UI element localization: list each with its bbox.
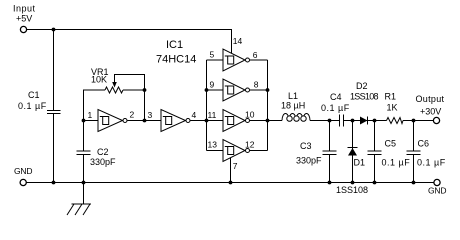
svg-text:C5: C5 — [385, 139, 397, 149]
svg-text:1: 1 — [88, 110, 93, 120]
pin number 9 — [210, 80, 215, 90]
svg-text:14: 14 — [233, 36, 243, 46]
svg-text:D1: D1 — [354, 158, 366, 168]
svg-text:18 µH: 18 µH — [281, 101, 305, 111]
node bus C2/earth — [82, 181, 86, 185]
svg-text:4: 4 — [192, 110, 197, 120]
svg-text:74HC14: 74HC14 — [156, 54, 196, 66]
svg-text:2: 2 — [130, 110, 135, 120]
capacitor C3 — [296, 121, 337, 183]
wire pin9 input — [207, 89, 224, 91]
wire pin10 output — [250, 120, 268, 122]
svg-text:C6: C6 — [418, 139, 430, 149]
inverter U1f pins 13-12 — [223, 140, 250, 162]
capacitor C2 — [77, 121, 117, 183]
pin number 6 — [253, 50, 258, 60]
pin number 12 — [245, 140, 255, 150]
svg-text:1K: 1K — [387, 103, 398, 113]
node R1 / C6 junction — [412, 119, 416, 123]
svg-text:1SS108: 1SS108 — [350, 92, 379, 102]
svg-text:330pF: 330pF — [90, 157, 116, 167]
capacitor C4 — [321, 92, 375, 127]
resistor R1 1K — [375, 92, 434, 124]
wire pin1 input — [84, 120, 99, 122]
svg-text:GND: GND — [428, 186, 446, 196]
svg-text:0.1 µF: 0.1 µF — [382, 158, 411, 168]
svg-text:10K: 10K — [91, 75, 107, 85]
node bus C3 — [328, 181, 332, 185]
pin number 14 — [233, 36, 243, 46]
svg-text:C1: C1 — [28, 90, 40, 100]
capacitor C5 — [368, 121, 411, 183]
svg-text:8: 8 — [254, 80, 259, 90]
node input bus pin9 — [205, 88, 209, 92]
pin number 8 — [254, 80, 259, 90]
node junction top rail / C1 — [52, 28, 56, 32]
diode D1 1SS108 — [336, 121, 368, 196]
capacitor C1 — [18, 30, 61, 183]
GND terminal right — [428, 179, 446, 195]
pin number 5 — [210, 50, 215, 60]
svg-text:+5V: +5V — [16, 14, 32, 24]
wire pin4 to pin11 — [190, 120, 223, 122]
svg-text:R1: R1 — [385, 92, 397, 102]
potentiometer VR1 10K — [84, 67, 145, 121]
svg-text:C3: C3 — [300, 141, 312, 151]
svg-text:12: 12 — [245, 140, 255, 150]
wire pin12 output — [250, 150, 268, 152]
wire pin8 output — [250, 89, 268, 91]
svg-text:Output: Output — [416, 94, 445, 104]
svg-text:5: 5 — [210, 50, 215, 60]
svg-text:1SS108: 1SS108 — [336, 185, 368, 195]
pin number 2 — [130, 110, 135, 120]
inductor L1 18uH — [268, 91, 340, 121]
node bus C5 — [373, 181, 377, 185]
node C4 / D1 junction — [351, 119, 355, 123]
wire pin2 to pin3 — [127, 120, 161, 122]
output terminal +30V — [416, 94, 445, 124]
earth ground symbol — [67, 183, 91, 216]
svg-text:7: 7 — [233, 161, 238, 171]
wire top +5V rail — [27, 30, 232, 54]
pin number 3 — [148, 110, 153, 120]
capacitor C6 — [407, 121, 446, 183]
svg-text:13: 13 — [208, 140, 218, 150]
svg-text:IC1: IC1 — [166, 39, 183, 51]
svg-text:6: 6 — [253, 50, 258, 60]
svg-text:C2: C2 — [97, 147, 109, 157]
wire IC output bus — [267, 60, 269, 151]
svg-text:3: 3 — [148, 110, 153, 120]
pin number 11 — [208, 110, 217, 120]
node pin1 junction — [82, 119, 86, 123]
svg-text:L1: L1 — [288, 91, 298, 101]
svg-text:9: 9 — [210, 80, 215, 90]
inverter U1b pins 3-4 — [161, 110, 190, 132]
inverter U1e pins 11-10 — [223, 110, 250, 132]
svg-text:10: 10 — [245, 110, 255, 120]
node output bus pin10 — [266, 119, 270, 123]
svg-text:0.1 µF: 0.1 µF — [321, 103, 350, 113]
svg-text:+30V: +30V — [420, 107, 441, 117]
GND terminal left — [14, 166, 32, 186]
svg-text:0.1 µF: 0.1 µF — [18, 101, 47, 111]
inverter U1d pins 9-8 — [223, 79, 250, 101]
wire pin5 input — [207, 59, 224, 61]
svg-text:D2: D2 — [356, 81, 368, 91]
node oscillator output bus junction — [205, 119, 209, 123]
node bus C6 — [412, 181, 416, 185]
node VR1 right lead junction — [143, 88, 147, 92]
svg-text:C4: C4 — [330, 92, 342, 102]
pin number 13 — [208, 140, 218, 150]
node bus D1 — [351, 181, 355, 185]
node bus pin7 — [229, 181, 233, 185]
inverter U1a pins 1-2 — [98, 110, 127, 132]
wire pin13 input — [207, 150, 224, 152]
pin number 4 — [192, 110, 197, 120]
node D2 / C5 junction — [373, 119, 377, 123]
node VR1 to pin2 wire junction — [143, 119, 147, 123]
diode D2 1SS108 — [350, 81, 379, 125]
node bus C1 — [52, 181, 56, 185]
wire IC input bus — [206, 60, 208, 151]
ground bus wire — [26, 182, 433, 184]
node L1 / C3 junction — [328, 119, 332, 123]
wire pin7 ground — [230, 158, 232, 183]
pin number 10 — [245, 110, 255, 120]
IC1 74HC14 label — [156, 39, 196, 66]
inverter U1c pins 5-6 — [223, 49, 250, 71]
svg-text:0.1 µF: 0.1 µF — [417, 158, 446, 168]
svg-text:GND: GND — [14, 166, 32, 176]
pin number 1 — [88, 110, 93, 120]
svg-text:330pF: 330pF — [296, 156, 322, 166]
svg-text:Input: Input — [13, 4, 36, 14]
node output bus pin8 — [266, 88, 270, 92]
pin number 7 — [233, 161, 238, 171]
svg-text:11: 11 — [208, 110, 217, 120]
wire pin6 output — [250, 59, 268, 61]
input terminal + labels — [13, 4, 36, 33]
